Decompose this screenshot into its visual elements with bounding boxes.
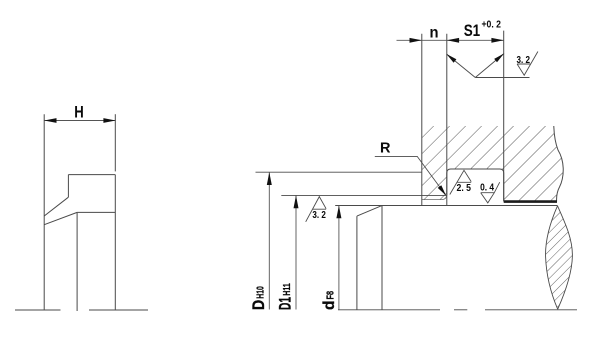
roughness symbol 3.2 left (points up at D1 surface)	[306, 197, 326, 222]
svg-text:D1: D1	[276, 297, 295, 310]
svg-text:H: H	[74, 104, 84, 122]
roughness symbol 0.4 (points down at bore)	[481, 182, 500, 203]
D1 dimension line	[295, 195, 297, 309]
svg-text:H11: H11	[281, 283, 293, 296]
D extension line	[256, 171, 423, 173]
axis centerline segment 1	[338, 309, 440, 311]
S1 right arrow	[491, 38, 503, 43]
svg-text:3. 2: 3. 2	[517, 54, 531, 66]
D dimension arrow	[267, 172, 272, 185]
groove finish leader right arrowhead	[494, 54, 504, 63]
svg-text:3. 2: 3. 2	[312, 209, 326, 221]
roughness symbol 3.2 top	[517, 52, 538, 76]
dimension H right arrow	[103, 118, 115, 123]
R leader line	[375, 156, 446, 195]
seal right outline upper / extension line	[114, 114, 116, 171]
label D H10 (rotated)	[249, 286, 268, 310]
housing wavy break line	[554, 126, 563, 201]
svg-text:0. 4: 0. 4	[480, 182, 494, 194]
groove finish leader right arm	[475, 54, 504, 78]
rod chamfer slant	[357, 206, 382, 216]
svg-text:R: R	[380, 141, 391, 157]
svg-text:S1: S1	[464, 21, 481, 40]
roughness symbol 2.5 (points up at groove top)	[450, 170, 471, 194]
seal inner vertical	[76, 212, 78, 311]
d dimension line	[338, 206, 340, 310]
D dimension line	[268, 172, 270, 309]
rod chamfer edge vertical	[381, 206, 383, 310]
R leader arrowhead	[438, 185, 446, 195]
seal right outline lower	[114, 175, 116, 310]
dimension n extension line / housing face	[421, 34, 423, 206]
svg-text:+0. 2: +0. 2	[482, 19, 502, 31]
D1 dimension arrow	[294, 195, 299, 208]
groove top wall line	[447, 169, 504, 201]
d dimension arrow	[336, 206, 341, 219]
label D1 H11 (rotated)	[276, 283, 295, 310]
axis centerline segment 2	[485, 309, 577, 311]
svg-text:d: d	[321, 301, 338, 311]
svg-text:n: n	[430, 24, 439, 41]
rod end face vertical	[356, 216, 358, 310]
seal top step horizontal	[68, 174, 115, 176]
n left arrow	[410, 38, 422, 43]
rod break lens left arc	[546, 206, 558, 309]
centerline right segment	[89, 309, 148, 311]
housing hatched section	[415, 120, 580, 210]
seal lip upper slant	[44, 197, 68, 216]
svg-text:F8: F8	[326, 291, 337, 300]
top dimension line	[397, 39, 504, 41]
rod break lens right arc	[558, 206, 573, 309]
rod break lens (hatched)	[543, 204, 575, 311]
seal step vertical	[67, 175, 69, 198]
svg-text:H10: H10	[255, 286, 267, 299]
dimension S1 right extension / groove right wall	[503, 31, 505, 202]
seal left outline / extension line	[43, 114, 45, 310]
n/S1 middle arrow	[447, 38, 459, 43]
dimension H line	[44, 120, 116, 122]
svg-text:2. 5: 2. 5	[457, 182, 472, 194]
seal lip lower slant	[44, 212, 77, 224]
label d F8 (rotated)	[321, 291, 338, 310]
bold contact line	[504, 200, 557, 203]
centerline left segment	[15, 309, 61, 311]
dimension H left arrow	[44, 118, 56, 123]
groove finish leader tail	[475, 77, 529, 79]
groove finish leader left arrowhead	[447, 54, 457, 63]
d extension line / rod surface	[335, 205, 557, 207]
dimension n right extension / groove left wall	[446, 34, 448, 206]
svg-text:D: D	[249, 300, 268, 310]
D1 extension line	[281, 194, 446, 196]
housing bore line left of groove	[422, 195, 447, 200]
seal inner shoulder horizontal	[77, 211, 115, 213]
groove finish leader left arm	[447, 54, 476, 78]
axis centerline short dash	[454, 309, 467, 311]
